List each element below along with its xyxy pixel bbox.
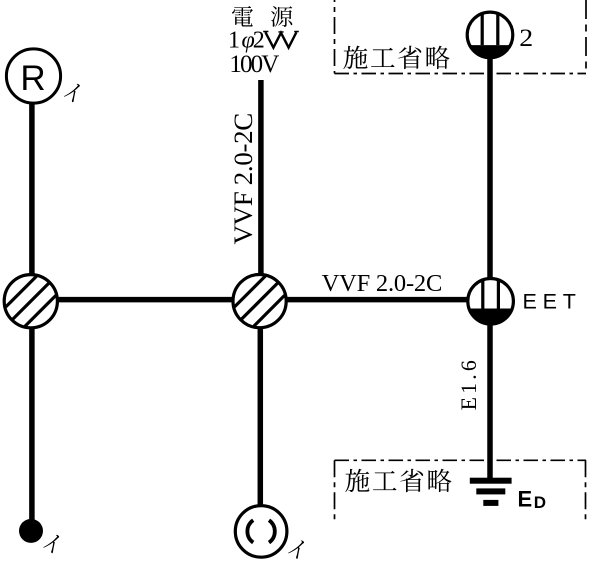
svg-text:E1.6: E1.6 <box>457 357 481 410</box>
ground electrode ED (three bars) <box>470 478 512 506</box>
wire: outlet 2 down through EET to ground <box>487 45 493 478</box>
construction-omitted box (bottom right, chain line) <box>335 460 587 520</box>
power source label 電源 <box>232 6 292 27</box>
svg-text:100V: 100V <box>229 51 279 78</box>
label イ (lamp) <box>287 540 304 558</box>
wire: center junction to ceiling lamp <box>258 300 264 508</box>
switch イ (filled dot) <box>19 519 43 543</box>
outlet EET (earthed receptacle) <box>468 279 514 325</box>
svg-text:2: 2 <box>253 27 265 53</box>
svg-text:2: 2 <box>519 23 533 52</box>
svg-text:D: D <box>534 493 546 512</box>
label イ (receptacle) <box>63 84 80 102</box>
junction box (center, hatched circle) <box>233 275 286 328</box>
label 施工省略 (top box) <box>343 46 449 69</box>
svg-text:E: E <box>518 487 533 512</box>
svg-text:R: R <box>20 59 45 98</box>
junction box (left, hatched circle) <box>4 275 57 328</box>
construction-omitted box (top right, chain line) <box>335 0 587 74</box>
svg-text:VVF 2.0-2C: VVF 2.0-2C <box>228 113 258 244</box>
svg-text:1: 1 <box>228 27 240 53</box>
wire: power feeder (top center vertical) <box>258 80 264 300</box>
wire: horizontal bus between junction boxes and EET <box>31 297 491 303</box>
wire: lamp receptacle to switch (left vertical) <box>29 101 35 524</box>
label イ (switch) <box>42 535 59 553</box>
lamp receptacle R (circle with R) <box>6 49 60 103</box>
ceiling rosette lamp イ (circle with broken inner circle) <box>235 506 287 558</box>
svg-text:EET: EET <box>523 290 582 314</box>
outlet 2 (double receptacle, wall mount) <box>467 12 513 58</box>
label 施工省略 (bottom box) <box>345 469 451 492</box>
svg-text:VVF 2.0-2C: VVF 2.0-2C <box>322 270 443 297</box>
